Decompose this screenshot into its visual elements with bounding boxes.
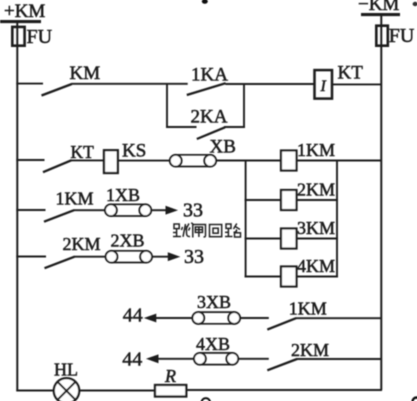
wire 2KA branch left segment: [166, 126, 197, 128]
lamp HL: [54, 378, 79, 401]
wire row4 arrow line: [152, 256, 169, 258]
arrow to 44 (row5): [144, 314, 157, 323]
wire row4 left segment: [16, 256, 46, 258]
svg-text:2KM: 2KM: [297, 180, 335, 200]
wire row2 seg5: [297, 160, 383, 162]
svg-text:2KA: 2KA: [191, 107, 228, 128]
wire 2KM branch right: [297, 199, 339, 201]
wire 4KM branch right: [297, 276, 339, 278]
wire row2 seg4: [216, 160, 281, 162]
artifact speck top-right: [413, 2, 417, 6]
svg-text:+KM: +KM: [4, 1, 45, 22]
svg-text:1XB: 1XB: [106, 185, 140, 205]
svg-text:3KM: 3KM: [297, 218, 335, 238]
wire row6 arrow line: [157, 358, 194, 360]
svg-text:KM: KM: [70, 63, 101, 84]
svg-text:HL: HL: [54, 360, 78, 380]
fuse FU left: [12, 27, 24, 46]
contact 2KA: [197, 127, 225, 139]
link 4XB: [194, 353, 238, 365]
arrow to 33 (row4): [168, 252, 181, 261]
wire row2 seg3: [118, 160, 170, 162]
svg-text:2KM: 2KM: [63, 234, 101, 254]
wire row2 left segment: [16, 159, 44, 161]
svg-text:KT: KT: [71, 142, 95, 162]
artifact partial glyph bottom: [202, 398, 210, 401]
bus bar -KM: [361, 13, 400, 16]
svg-text:KS: KS: [122, 141, 146, 162]
contact 1KM (row5): [267, 318, 296, 329]
svg-text:FU: FU: [389, 25, 415, 47]
wire row5 seg2: [240, 317, 269, 319]
wire 2KM branch left: [245, 199, 282, 201]
coil 4KM: [281, 267, 297, 287]
wire 2KA branch right segment: [224, 126, 245, 128]
svg-text:XB: XB: [210, 137, 236, 158]
contact 1KM: [44, 210, 74, 222]
wire row1 mid segment: [72, 83, 188, 85]
svg-text:1KA: 1KA: [191, 65, 228, 86]
svg-text:1KM: 1KM: [297, 140, 335, 160]
wire row6 right segment: [296, 358, 382, 360]
svg-text:I: I: [320, 78, 327, 95]
svg-text:1KM: 1KM: [289, 299, 327, 319]
wire bottom right segment: [186, 389, 382, 391]
svg-text:R: R: [164, 366, 176, 386]
wire row1 right-of-1KA segment: [225, 83, 314, 85]
arrow to 44 (row6): [146, 354, 159, 363]
contact KT: [43, 160, 72, 172]
wire right bus vertical: [380, 16, 382, 390]
arrow to 33 (row3): [166, 206, 179, 215]
wire row1 right segment: [332, 83, 382, 85]
link 3XB: [192, 312, 240, 324]
闸 zha: [191, 223, 205, 238]
svg-text:4KM: 4KM: [297, 256, 335, 276]
wire row1 left segment: [16, 83, 43, 85]
wire row3 seg2: [74, 209, 106, 211]
svg-text:33: 33: [183, 200, 203, 222]
contact 2KM: [45, 257, 75, 269]
svg-text:2KM: 2KM: [291, 340, 329, 360]
relay KS box: [104, 150, 118, 173]
contact 1KA: [187, 83, 226, 95]
wire left bus vertical: [16, 23, 18, 391]
wire 2KA branch right vertical: [243, 83, 245, 128]
wire row2 seg2: [71, 159, 104, 161]
contact KM: [42, 84, 72, 96]
svg-text:KT: KT: [338, 63, 364, 84]
跳 tiao: [173, 224, 190, 237]
link 2XB: [106, 251, 152, 263]
wire 3KM branch right: [297, 238, 339, 240]
coil 2KM: [281, 190, 297, 210]
路 lu: [225, 224, 241, 238]
link 1XB: [105, 204, 151, 216]
resistor R: [155, 385, 186, 397]
wire row4 seg2: [74, 256, 106, 258]
coil 3KM: [281, 229, 297, 249]
svg-text:3XB: 3XB: [197, 292, 231, 312]
wire bottom left segment: [16, 390, 54, 392]
svg-text:4XB: 4XB: [196, 334, 230, 354]
svg-text:33: 33: [184, 246, 204, 268]
contact 2KM (row6): [267, 359, 297, 370]
svg-text:44: 44: [123, 305, 143, 327]
wire 2KA branch left vertical: [166, 83, 168, 128]
link XB: [170, 155, 216, 167]
wire row3 arrow line: [151, 209, 167, 211]
svg-text:2XB: 2XB: [111, 231, 145, 251]
artifact partial glyph bottom-right: [413, 398, 417, 401]
wire 3KM branch left: [245, 238, 282, 240]
svg-text:44: 44: [122, 349, 142, 371]
svg-text:FU: FU: [27, 26, 53, 48]
回 hui: [210, 225, 222, 237]
coil 1KM: [281, 151, 297, 171]
text trip-circuit 跳闸回路: [173, 223, 241, 238]
relay coil KT: [315, 70, 333, 99]
wire row3 left segment: [16, 209, 45, 211]
fuse FU right: [376, 26, 388, 46]
wire 4KM branch left: [245, 276, 282, 278]
svg-text:1KM: 1KM: [56, 189, 94, 209]
artifact speck top: [202, 0, 208, 4]
svg-text:−KM: −KM: [358, 0, 399, 15]
wire coil-branch right bus: [336, 160, 338, 278]
wire bottom mid segment: [79, 390, 155, 392]
wire row6 seg2: [238, 358, 269, 360]
wire coil-branch left bus: [245, 160, 247, 278]
wire row5 arrow line: [155, 317, 193, 319]
wire row5 right segment: [295, 317, 382, 319]
bus bar +KM: [0, 20, 41, 23]
